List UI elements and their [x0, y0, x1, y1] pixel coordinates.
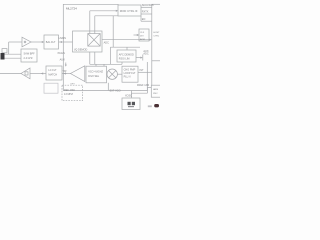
svg-text:SDIO/SCK: SDIO/SCK — [142, 4, 154, 7]
svg-text:13 MHZ: 13 MHZ — [64, 93, 73, 96]
svg-text:ADC: ADC — [143, 53, 148, 56]
svg-text:RXTX: RXTX — [142, 11, 149, 14]
svg-text:AFC DEMOD: AFC DEMOD — [119, 53, 134, 56]
svg-text:MOD CTRL IF: MOD CTRL IF — [120, 9, 138, 13]
svg-text:EXT VCO: EXT VCO — [110, 89, 121, 92]
svg-text:FREF 13M: FREF 13M — [137, 84, 149, 87]
svg-text:PA EN: PA EN — [58, 52, 65, 55]
svg-text:T/R: T/R — [62, 70, 66, 73]
svg-text:CTRL: CTRL — [153, 36, 159, 38]
svg-text:APM: APM — [140, 38, 145, 41]
svg-text:2.4 GHz: 2.4 GHz — [24, 57, 34, 60]
svg-text:LC FLT: LC FLT — [48, 69, 57, 72]
svg-text:SAW BPF: SAW BPF — [24, 53, 36, 56]
svg-text:DIV2 SEL: DIV2 SEL — [88, 75, 100, 78]
svg-text:CLK: CLK — [140, 32, 145, 34]
svg-text:VCO 4.8GHZ: VCO 4.8GHZ — [88, 70, 103, 73]
svg-text:REF OSC: REF OSC — [64, 89, 75, 92]
svg-text:ML2724: ML2724 — [66, 7, 77, 11]
svg-text:EN: EN — [142, 18, 146, 21]
svg-text:MATCH: MATCH — [48, 74, 57, 77]
svg-text:RSSI LIM: RSSI LIM — [119, 58, 130, 61]
svg-text:ADC: ADC — [104, 42, 109, 45]
svg-text:INT: INT — [140, 69, 145, 72]
svg-text:DIV: DIV — [140, 35, 144, 37]
svg-text:AUX: AUX — [60, 59, 65, 62]
svg-text:HOST: HOST — [153, 32, 160, 34]
svg-text:ARM: ARM — [153, 88, 158, 91]
svg-text:I/Q DEMOD: I/Q DEMOD — [74, 48, 88, 51]
svg-text:BAL FLT: BAL FLT — [46, 41, 56, 44]
svg-text:OPT: OPT — [70, 84, 75, 86]
svg-text:LNAIN: LNAIN — [59, 37, 67, 40]
svg-text:XOSC: XOSC — [125, 94, 132, 97]
svg-text:PLL N: PLL N — [124, 75, 131, 78]
svg-text:FNC: FNC — [153, 93, 158, 95]
